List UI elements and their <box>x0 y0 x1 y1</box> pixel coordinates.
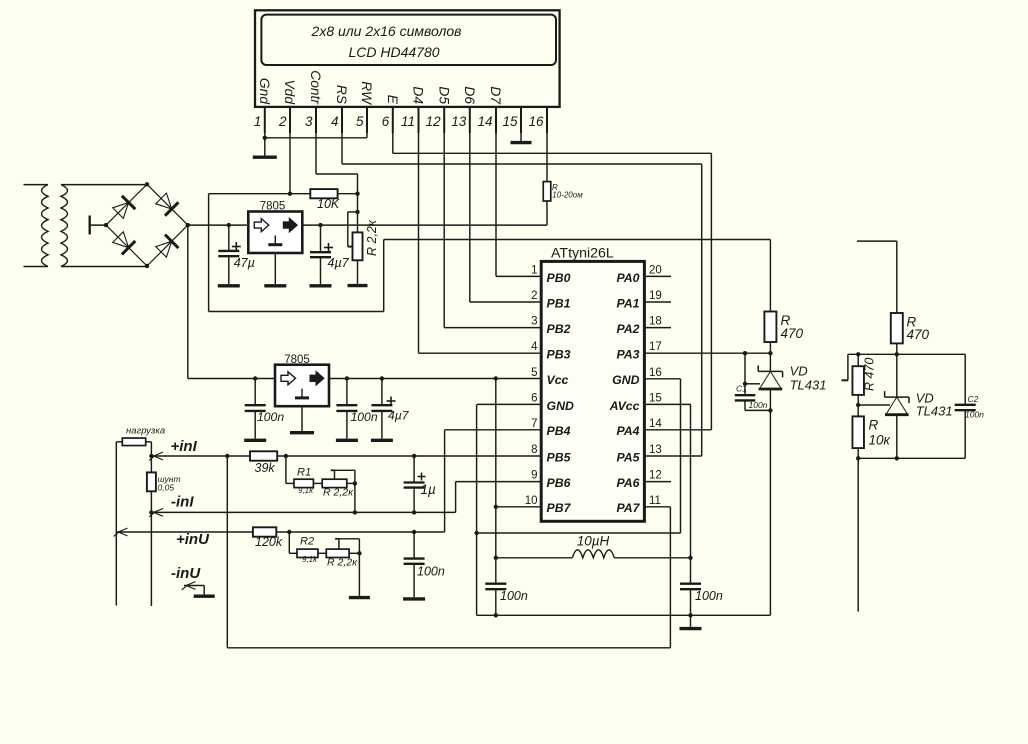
svg-text:7: 7 <box>531 418 537 430</box>
resistor 120k <box>253 527 276 536</box>
ground at LCD pin15 <box>511 133 532 143</box>
svg-text:3: 3 <box>305 114 313 129</box>
label R 2.2k vertical <box>365 219 379 256</box>
label R 10-20om <box>552 183 583 200</box>
resistor 39k <box>250 451 277 460</box>
svg-text:100n: 100n <box>749 400 768 410</box>
wire PA3 pin17 to TL431 <box>644 351 772 355</box>
label VD TL431 #1 <box>790 363 827 392</box>
svg-text:10к: 10к <box>869 433 891 448</box>
svg-text:LCD HD44780: LCD HD44780 <box>348 44 439 60</box>
label R470 #2 <box>907 315 930 343</box>
trimmer R 2.2k #2 <box>318 539 362 596</box>
trimmer R470 #3 <box>852 354 864 416</box>
label 100n right <box>695 589 723 603</box>
svg-text:8: 8 <box>531 444 537 456</box>
svg-text:100n: 100n <box>500 589 528 603</box>
svg-text:14: 14 <box>649 418 662 430</box>
svg-text:Vcc: Vcc <box>547 373 569 387</box>
svg-text:15: 15 <box>649 392 662 404</box>
svg-text:1µ: 1µ <box>421 482 437 497</box>
IC U1 ATtyni26L body <box>541 261 644 521</box>
LCD title text <box>311 23 462 60</box>
wire GND pin6 column <box>477 404 542 615</box>
load resistor nagruzka <box>116 438 151 456</box>
wire TL431 #2 cathode down <box>895 415 899 461</box>
resistor R10k <box>852 416 864 611</box>
svg-text:R: R <box>869 418 879 433</box>
svg-text:PA6: PA6 <box>616 476 639 490</box>
TL431 VD #1 <box>758 365 782 389</box>
svg-text:PA2: PA2 <box>616 322 639 336</box>
wire Vdd pin2 down <box>289 133 291 194</box>
IC unconnected right stubs <box>644 276 671 481</box>
svg-text:2x8 или 2x16 символов: 2x8 или 2x16 символов <box>311 23 462 39</box>
svg-text:GND: GND <box>547 399 574 413</box>
bridge + output wire <box>188 223 249 227</box>
ground at 7805 #1 <box>264 253 286 286</box>
bottom wire TL431 #2 <box>858 457 965 459</box>
svg-text:R 2,2к: R 2,2к <box>327 556 358 568</box>
svg-text:19: 19 <box>649 290 662 302</box>
svg-text:12: 12 <box>649 470 662 482</box>
svg-text:4µ7: 4µ7 <box>328 256 350 270</box>
svg-text:C1: C1 <box>736 384 747 394</box>
svg-text:15: 15 <box>502 114 518 129</box>
label C1 <box>736 384 768 410</box>
label shunt 0.05 <box>158 474 181 493</box>
svg-text:6: 6 <box>531 392 537 404</box>
LCD pin labels Gnd Vdd Contr RS RW E D4 D5 D6 D7 <box>257 70 503 106</box>
wire GND pin16 <box>474 379 680 535</box>
resistor R470 #2 <box>891 313 903 397</box>
svg-text:0,05: 0,05 <box>158 483 175 493</box>
wire Vdd riser to TL431 feed <box>209 194 771 312</box>
diode D4 lower-right <box>156 235 179 258</box>
ground at LCD pin1 <box>253 138 277 157</box>
svg-text:PB1: PB1 <box>547 296 571 310</box>
label 100n output <box>351 410 378 424</box>
label 39k <box>255 461 276 475</box>
svg-text:R 470: R 470 <box>863 358 877 391</box>
capacitor 100n output <box>336 379 358 441</box>
svg-text:D7: D7 <box>488 86 503 105</box>
svg-text:TL431: TL431 <box>916 403 953 418</box>
transformer primary winding <box>24 185 49 267</box>
svg-text:2: 2 <box>531 290 537 302</box>
shunt resistor <box>147 456 156 512</box>
label R1 <box>297 466 314 495</box>
svg-text:PA5: PA5 <box>616 450 639 464</box>
svg-text:PA1: PA1 <box>616 296 639 310</box>
label 47u <box>234 256 255 270</box>
svg-text:ATtyni26L: ATtyni26L <box>551 246 614 262</box>
svg-text:RS: RS <box>334 85 349 105</box>
svg-text:D6: D6 <box>462 86 477 104</box>
label VD TL431 #2 <box>916 390 953 418</box>
label R2 <box>300 536 318 564</box>
capacitor 4u7 #1 <box>310 225 334 286</box>
wire +5V rail 7805-1 output <box>302 223 547 227</box>
label 100n inU <box>417 565 445 579</box>
svg-text:11: 11 <box>401 114 415 129</box>
capacitor 100n AVcc right <box>680 558 701 616</box>
svg-text:13: 13 <box>451 114 467 129</box>
label C2 <box>965 394 984 420</box>
svg-text:4: 4 <box>331 114 339 129</box>
svg-text:7805: 7805 <box>260 201 286 213</box>
R2 branch <box>289 532 318 558</box>
svg-text:PB2: PB2 <box>547 322 571 336</box>
svg-text:Gnd: Gnd <box>257 78 272 105</box>
svg-text:100n: 100n <box>417 565 445 579</box>
svg-text:7805: 7805 <box>284 354 310 366</box>
wire Vcc rail <box>329 376 541 380</box>
wire AVcc pin15 <box>644 404 690 557</box>
resistor R 10-20om <box>543 133 551 225</box>
svg-text:9: 9 <box>531 470 537 482</box>
label 120k <box>255 535 283 549</box>
capacitor C2 <box>955 354 976 458</box>
svg-text:17: 17 <box>649 341 662 353</box>
svg-text:AVcc: AVcc <box>609 399 640 413</box>
-inI node <box>149 509 163 517</box>
svg-text:R1: R1 <box>297 466 311 478</box>
label R470 vertical <box>863 358 877 391</box>
wire RS pin4 to PA5 <box>342 133 702 456</box>
svg-text:D5: D5 <box>436 86 451 104</box>
svg-text:11: 11 <box>649 495 661 507</box>
wire Gnd pin1 to RW pin5 <box>263 133 367 140</box>
capacitor 4u7 #2 <box>371 379 396 441</box>
resistor 10K <box>310 189 359 198</box>
svg-text:16: 16 <box>528 114 544 129</box>
wire PA7 pin11 sense <box>227 507 670 648</box>
svg-text:Vdd: Vdd <box>282 79 297 105</box>
trimmer R 2.2k contrast <box>348 194 363 284</box>
svg-text:6: 6 <box>382 114 390 129</box>
ground at trimmer #2 <box>349 596 370 599</box>
transformer secondary winding <box>61 185 147 267</box>
wire E pin6 to PA4 <box>393 133 712 430</box>
svg-text:12: 12 <box>426 114 442 129</box>
svg-text:1: 1 <box>254 114 262 129</box>
wire TL431 #1 cathode down <box>768 389 772 615</box>
svg-text:4: 4 <box>531 341 538 353</box>
label 10uH <box>577 534 610 549</box>
svg-text:10K: 10K <box>317 197 340 211</box>
svg-text:5: 5 <box>531 367 537 379</box>
svg-text:R 2,2к: R 2,2к <box>365 219 379 256</box>
svg-text:GND: GND <box>612 373 639 387</box>
svg-text:PB5: PB5 <box>547 450 571 464</box>
svg-text:Contr: Contr <box>308 70 323 105</box>
svg-text:100n: 100n <box>695 589 723 603</box>
svg-text:10µH: 10µH <box>577 534 610 549</box>
feed wire TL431 #2 <box>857 241 897 313</box>
svg-text:470: 470 <box>781 326 804 341</box>
svg-text:14: 14 <box>477 114 492 129</box>
svg-text:100n: 100n <box>257 410 284 424</box>
bridge diamond wires <box>104 182 190 268</box>
label 100n left <box>500 589 528 603</box>
TL431 VD #2 <box>885 391 909 415</box>
wire Contr pin3 to trimmer <box>316 133 358 194</box>
label 1u <box>421 482 437 497</box>
GND bus bottom <box>477 613 771 617</box>
svg-text:9,1k: 9,1k <box>302 555 318 564</box>
svg-text:3: 3 <box>531 316 537 328</box>
svg-text:13: 13 <box>649 444 662 456</box>
capacitor 100n AVcc left <box>485 558 506 616</box>
capacitor 1u <box>404 456 426 515</box>
IC pin name labels <box>547 271 641 515</box>
capacitor 100n inU <box>403 532 425 599</box>
svg-text:PA3: PA3 <box>616 348 639 362</box>
svg-text:R 2,2к: R 2,2к <box>323 486 354 498</box>
ground at GND bus <box>680 615 702 628</box>
svg-text:C2: C2 <box>968 394 979 404</box>
R1 branch <box>286 456 314 488</box>
wire D5 pin12 to PB2 <box>444 133 541 328</box>
svg-text:TL431: TL431 <box>790 377 827 392</box>
capacitor C1 <box>735 353 771 410</box>
svg-text:PB4: PB4 <box>547 424 571 438</box>
wire bridge to 7805 #2 <box>188 225 275 381</box>
svg-text:PA7: PA7 <box>616 501 640 515</box>
diode D3 upper-right <box>156 193 179 216</box>
wire ref to TL431 <box>858 404 890 406</box>
svg-text:PA0: PA0 <box>616 271 639 285</box>
wire D6 pin13 to PB1 <box>470 133 541 302</box>
svg-text:18: 18 <box>649 316 662 328</box>
-inU node <box>182 582 215 597</box>
svg-text:1: 1 <box>531 264 537 276</box>
LCD pin numbers <box>254 114 544 129</box>
+inI node <box>149 452 163 460</box>
svg-text:E: E <box>385 95 400 105</box>
svg-text:120k: 120k <box>255 535 283 549</box>
svg-text:PB3: PB3 <box>547 348 571 362</box>
capacitor 100n input <box>244 379 266 441</box>
svg-text:10: 10 <box>525 495 538 507</box>
voltage regulator 7805 #2 <box>275 365 329 407</box>
svg-text:16: 16 <box>649 367 662 379</box>
svg-text:5: 5 <box>356 114 364 129</box>
diode D1 lower-left <box>113 232 136 255</box>
ground at trimmer 2.2k <box>348 284 368 287</box>
label R10k <box>869 418 891 448</box>
svg-text:39k: 39k <box>255 461 276 475</box>
svg-text:RW: RW <box>359 81 374 106</box>
label 10K <box>317 197 340 211</box>
label 100n input <box>257 410 284 424</box>
inductor 10uH <box>496 550 693 560</box>
svg-text:4µ7: 4µ7 <box>388 408 410 422</box>
IC pin number labels <box>525 264 663 506</box>
svg-text:-inU: -inU <box>171 565 201 582</box>
LCD pin stubs <box>265 107 547 133</box>
label +inU <box>176 531 210 548</box>
svg-text:нагрузка: нагрузка <box>126 426 165 437</box>
diode D2 upper-left <box>113 196 136 219</box>
voltage regulator 7805 #1 <box>248 212 302 254</box>
svg-text:+inU: +inU <box>176 531 210 548</box>
label R 2.2k #1 <box>323 486 354 498</box>
wire +inU to PB4 <box>276 430 541 534</box>
label R470 #1 <box>781 313 804 341</box>
wire D7 pin14 to PB0 <box>496 133 541 276</box>
svg-text:+inI: +inI <box>171 438 198 455</box>
wire -inI to PB6 <box>151 482 541 515</box>
label R 2.2k #2 <box>327 556 358 568</box>
svg-text:10-20ом: 10-20ом <box>552 191 583 200</box>
label 7805 #1 <box>260 201 286 213</box>
svg-text:VD: VD <box>790 363 808 378</box>
svg-text:470: 470 <box>907 327 930 342</box>
wire +inI sense column <box>226 456 228 648</box>
svg-text:-inI: -inI <box>171 494 194 511</box>
svg-text:2: 2 <box>278 114 287 129</box>
wire +inU to 120k <box>116 531 253 533</box>
wire Vdd rail with 10K <box>209 192 311 196</box>
+inU node <box>114 528 128 536</box>
wire Vcc column to PB7 and inductor <box>494 379 542 561</box>
wire D4 pin11 to PB3 <box>419 133 542 353</box>
label 4u7 #2 <box>388 408 410 422</box>
svg-text:PA4: PA4 <box>616 424 639 438</box>
label 4u7 #1 <box>328 256 350 270</box>
svg-text:PB6: PB6 <box>547 476 571 490</box>
svg-text:47µ: 47µ <box>234 256 255 270</box>
label -inU <box>171 565 201 582</box>
AC minus terminal <box>90 216 106 235</box>
wire +inI to PB5 <box>225 454 541 458</box>
LCD module box <box>255 10 560 107</box>
svg-text:R2: R2 <box>300 536 314 548</box>
ground at 7805 #2 <box>290 406 314 433</box>
svg-text:100n: 100n <box>965 410 984 420</box>
load left column <box>115 442 117 606</box>
svg-text:D4: D4 <box>411 86 426 104</box>
label -inI <box>171 494 194 511</box>
svg-text:20: 20 <box>649 264 662 276</box>
wire +inI to 39k <box>151 455 250 457</box>
wire ref node <box>842 352 966 380</box>
svg-text:PB7: PB7 <box>547 501 572 515</box>
shunt column lower <box>150 512 152 606</box>
label 7805 #2 <box>284 354 310 366</box>
capacitor 47u <box>218 225 241 286</box>
trimmer R 2.2k #1 <box>313 470 357 512</box>
resistor R470 #1 <box>764 240 776 372</box>
label +inI <box>171 438 198 455</box>
svg-text:PB0: PB0 <box>547 271 571 285</box>
label ATtyni26L <box>551 246 614 262</box>
svg-text:9,1k: 9,1k <box>298 486 314 495</box>
label nagruzka <box>126 426 165 437</box>
